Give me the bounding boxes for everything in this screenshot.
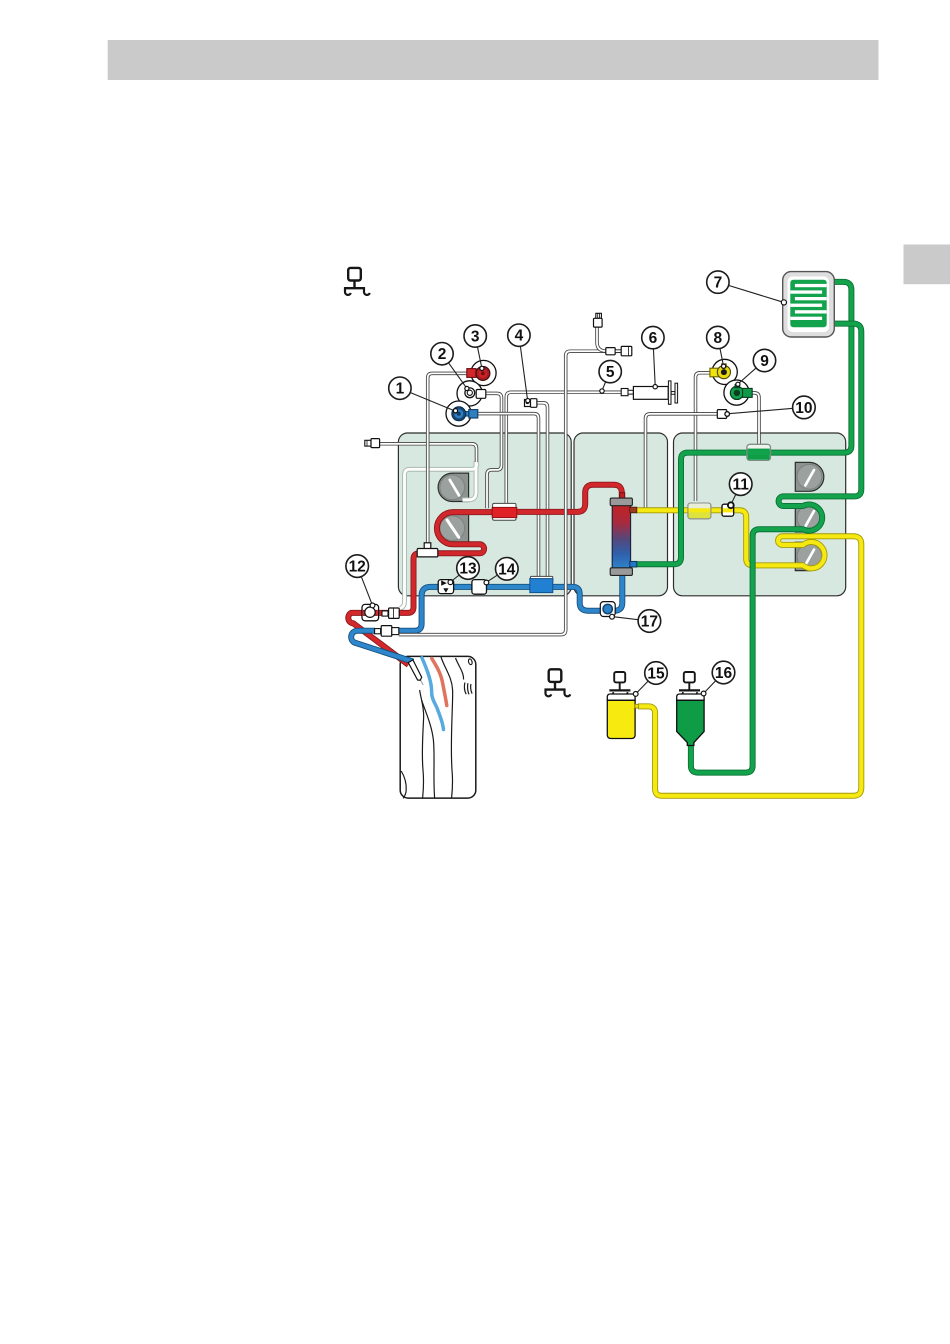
svg-text:14: 14 <box>498 561 516 578</box>
bottom stand icon <box>545 669 571 696</box>
svg-text:5: 5 <box>606 364 615 381</box>
line from red luer square down to saline T <box>428 373 467 545</box>
green tube heat exchanger to pump and container 16 <box>691 324 861 773</box>
svg-text:8: 8 <box>713 330 722 347</box>
svg-text:10: 10 <box>795 400 812 417</box>
machine panel 2 <box>574 433 668 596</box>
arterial pump segment holder <box>493 503 516 520</box>
svg-text:9: 9 <box>760 353 769 370</box>
machine panel 3 <box>674 433 846 596</box>
svg-text:7: 7 <box>714 275 723 292</box>
blue venous blood tube (dialyzer to patient) <box>351 575 622 662</box>
connector 4 <box>525 399 537 408</box>
svg-text:2: 2 <box>438 346 447 363</box>
svg-text:12: 12 <box>349 559 366 576</box>
pump housing P1a (left panel upper) <box>438 473 469 501</box>
svg-text:6: 6 <box>649 330 658 347</box>
balloon 5 <box>599 360 621 382</box>
green pump cassette <box>747 444 771 460</box>
clamp 14 <box>472 580 487 595</box>
target rings <box>370 300 786 697</box>
connector 10 <box>717 410 729 419</box>
red pressure luer 3 <box>467 366 490 380</box>
balloon 12 <box>346 555 369 578</box>
venous fistula vessel (light blue) <box>422 658 444 730</box>
fistula needle <box>408 660 421 680</box>
yellow dialysate-out tube <box>637 510 862 796</box>
arterial clamp box 12 <box>362 604 379 620</box>
dialysate sample cassette (yellow) <box>687 503 711 519</box>
red arterial blood tube (patient to T to pump to dialyzer) <box>348 485 622 665</box>
syringe 6 heparin pump <box>621 381 677 404</box>
heparin line syringe to port 2 with branch to arterial segment <box>486 392 622 508</box>
balloon 4 <box>508 324 530 346</box>
svg-text:1: 1 <box>396 381 405 398</box>
green pressure luer 9 <box>730 385 752 400</box>
balloon 14 <box>496 558 519 581</box>
line from connector 10 to dialysate outlet <box>646 414 718 508</box>
container 16 hanger <box>679 672 700 697</box>
heat exchanger 7 <box>783 272 835 337</box>
pump housing P3b (right panel middle) <box>795 504 823 532</box>
venous pump segment holder <box>530 576 552 582</box>
balloon 9 <box>753 349 775 371</box>
leader lines <box>357 282 804 694</box>
header bar <box>108 40 879 80</box>
balloon 6 <box>642 326 664 348</box>
service line rinse cap to venous connector pair <box>399 327 606 635</box>
pump housing P3c (right panel bottom) <box>795 542 823 570</box>
balloon 2 <box>431 343 453 365</box>
machine panel 1 <box>398 433 571 596</box>
white saline tube loop around pump P1a <box>400 461 477 608</box>
arterial fistula vessel (salmon) <box>432 659 447 706</box>
white infusion port 2 <box>465 388 486 398</box>
green dialysate-in tube (dialyzer to heat exchanger) <box>630 282 851 564</box>
venous pump segment (blue) <box>530 579 553 593</box>
container 15 (yellow bicarbonate) <box>607 694 638 738</box>
air bubble detector 17 <box>600 602 615 617</box>
svg-text:11: 11 <box>733 477 750 494</box>
dialyzer body <box>610 493 637 576</box>
pump housing P3a (right panel top) <box>795 462 824 491</box>
balloon 3 <box>464 325 486 347</box>
arterial connector pair <box>382 608 399 618</box>
balloon 11 <box>729 473 752 496</box>
right margin tab <box>904 245 950 285</box>
venous connector pair <box>375 626 399 637</box>
clamp 11 <box>722 504 734 516</box>
service line from connector A to white tube <box>380 444 477 462</box>
arterial pump segment (red) <box>492 507 517 517</box>
container 15 hanger <box>609 672 630 697</box>
line from connector 4 to venous segment holder <box>537 403 548 577</box>
svg-text:3: 3 <box>471 329 480 346</box>
transducer housing circles <box>446 359 749 426</box>
line from green luer square to green segment holder <box>752 393 759 445</box>
clamp 13 <box>438 580 453 594</box>
svg-text:16: 16 <box>715 665 733 682</box>
balloon 16 <box>712 661 735 684</box>
svg-text:17: 17 <box>641 614 658 631</box>
balloon 1 <box>389 377 411 399</box>
line from blue luer square to venous segment holder <box>478 414 539 577</box>
balloon 15 <box>645 662 668 685</box>
svg-text:4: 4 <box>515 328 524 345</box>
patient arm panel <box>400 656 476 798</box>
rinse luer pair <box>606 346 632 355</box>
connector A (saline line end) <box>365 439 380 448</box>
stand icon top-left <box>344 268 370 295</box>
balloon 10 <box>793 396 816 419</box>
balloon 17 <box>638 610 661 633</box>
blue pressure luer 1 <box>452 407 478 421</box>
balloon 13 <box>457 557 480 580</box>
balloon 8 <box>707 326 729 348</box>
rinse cap connector <box>594 313 603 327</box>
svg-text:15: 15 <box>647 666 665 683</box>
balloon 7 <box>707 271 729 293</box>
line from yellow luer square to dialysate segment holder <box>696 373 710 501</box>
pump housing P1b blood pump (left panel lower) <box>438 514 469 542</box>
yellow pressure luer 8 <box>710 364 731 379</box>
saline T-connector <box>417 543 438 557</box>
svg-text:13: 13 <box>459 561 477 578</box>
container 16 (green acid concentrate) <box>677 694 704 746</box>
